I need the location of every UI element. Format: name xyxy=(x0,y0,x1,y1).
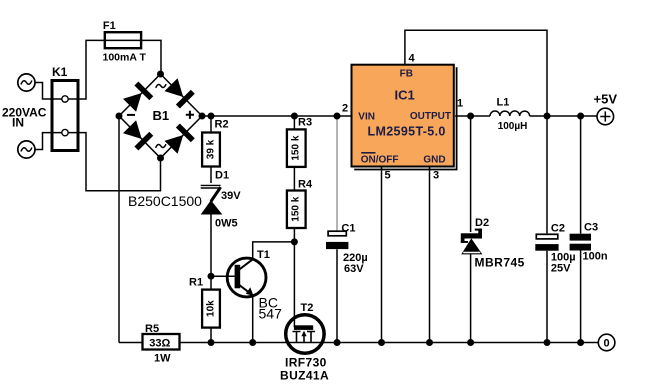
node bridge right xyxy=(199,113,206,120)
svg-text:220VAC: 220VAC xyxy=(2,106,47,120)
wire K1 bottom to bridge bottom xyxy=(69,133,161,191)
svg-text:3: 3 xyxy=(433,170,439,182)
wire bottom rail xyxy=(119,342,598,344)
svg-text:63V: 63V xyxy=(344,263,364,275)
zener D1 xyxy=(201,185,223,214)
bridge diode top-left xyxy=(122,82,153,113)
node C1 top xyxy=(334,113,341,120)
wire bridge minus down to bottom rail xyxy=(118,116,120,343)
svg-text:C3: C3 xyxy=(584,222,598,234)
capacitor C2 xyxy=(546,116,548,233)
svg-text:IN: IN xyxy=(12,116,24,130)
svg-text:T1: T1 xyxy=(257,249,270,261)
capacitor C3 xyxy=(580,116,582,234)
wire AC top to K1 xyxy=(35,83,65,100)
svg-text:C2: C2 xyxy=(551,223,565,235)
svg-text:1W: 1W xyxy=(154,353,171,365)
svg-text:D2: D2 xyxy=(475,217,489,229)
terminal 0V xyxy=(598,334,615,351)
svg-text:100mA T: 100mA T xyxy=(103,52,147,64)
node C3 bottom xyxy=(577,339,584,346)
svg-text:OUTPUT: OUTPUT xyxy=(410,111,451,122)
AC source top xyxy=(18,74,35,91)
node pin 5 bottom xyxy=(378,339,385,346)
svg-text:LM2595T-5.0: LM2595T-5.0 xyxy=(368,125,446,139)
node switch/D2 xyxy=(467,113,474,120)
transistor T1 xyxy=(227,258,266,297)
node collector/gate junction xyxy=(291,238,298,245)
wire R2 to D1 xyxy=(210,167,212,184)
bridge diode bottom-right xyxy=(164,124,195,155)
svg-text:T2: T2 xyxy=(301,302,314,314)
resistor R4 xyxy=(287,191,306,229)
bridge rectifier B1 xyxy=(119,74,202,158)
resistor R3 xyxy=(293,116,295,129)
svg-text:25V: 25V xyxy=(551,263,571,275)
node FB/C2 xyxy=(544,113,551,120)
node R2 tap xyxy=(208,113,215,120)
svg-text:150 k: 150 k xyxy=(291,196,302,221)
node C2 bottom xyxy=(544,339,551,346)
AC source bottom xyxy=(18,141,35,158)
node bridge bottom xyxy=(157,155,164,162)
node R3 tap xyxy=(291,113,298,120)
svg-text:FB: FB xyxy=(400,69,413,80)
wire output rail xyxy=(455,115,490,117)
svg-text:2: 2 xyxy=(342,103,348,115)
wire T1 base xyxy=(211,275,235,277)
bridge diode top-right xyxy=(164,77,195,108)
pin 5 wire xyxy=(381,167,383,343)
svg-text:R1: R1 xyxy=(189,277,203,289)
bridge diode bottom-left xyxy=(122,119,153,150)
node pin 3 bottom xyxy=(426,339,433,346)
node T1 emitter bottom xyxy=(249,339,256,346)
svg-text:ON/OFF: ON/OFF xyxy=(361,154,399,165)
svg-text:+5V: +5V xyxy=(594,92,618,107)
node bridge left xyxy=(116,113,123,120)
capacitor C1 xyxy=(336,116,338,231)
svg-text:10k: 10k xyxy=(206,300,217,317)
pin 4 wire FB xyxy=(405,30,547,116)
pin 3 wire xyxy=(429,167,431,343)
IC1 regulator xyxy=(352,65,457,170)
svg-text:L1: L1 xyxy=(497,97,510,109)
svg-text:1: 1 xyxy=(457,98,463,110)
svg-text:4: 4 xyxy=(409,53,416,65)
node R1 bottom xyxy=(208,339,215,346)
svg-text:R3: R3 xyxy=(298,117,312,129)
wire K1 top to fuse xyxy=(69,40,161,99)
node bridge top xyxy=(157,71,164,78)
svg-text:R5: R5 xyxy=(145,323,159,335)
wire AC bottom to K1 xyxy=(35,133,65,150)
MOSFET T2 xyxy=(286,315,324,353)
svg-text:39 k: 39 k xyxy=(206,139,217,159)
terminal +5V xyxy=(597,108,614,125)
wire R4 to T2 gate xyxy=(293,228,295,327)
svg-text:IRF730: IRF730 xyxy=(285,356,327,370)
wire R3 to R4 xyxy=(293,167,295,191)
svg-text:BUZ41A: BUZ41A xyxy=(280,369,329,383)
node C1 bottom xyxy=(334,339,341,346)
svg-text:F1: F1 xyxy=(103,20,116,32)
wire main rail bridge to IC xyxy=(202,115,352,117)
wire D1 to R1 xyxy=(210,215,212,290)
wire L1 to +5V xyxy=(530,115,597,117)
svg-text:VIN: VIN xyxy=(358,111,375,122)
svg-text:0W5: 0W5 xyxy=(215,218,238,230)
svg-text:33Ω: 33Ω xyxy=(149,337,170,349)
resistor R5 xyxy=(143,334,180,350)
wire R1 to rail xyxy=(210,328,212,343)
svg-text:GND: GND xyxy=(423,154,445,165)
svg-text:R2: R2 xyxy=(215,119,229,131)
svg-text:C1: C1 xyxy=(341,223,355,235)
node D2 bottom xyxy=(467,339,474,346)
svg-text:100µH: 100µH xyxy=(498,121,528,132)
svg-text:B1: B1 xyxy=(153,108,170,123)
svg-text:K1: K1 xyxy=(52,65,68,79)
fuse F1 xyxy=(105,32,141,48)
svg-text:547: 547 xyxy=(259,306,283,322)
svg-text:150 k: 150 k xyxy=(291,135,302,160)
node D1/R1/T1 base xyxy=(208,273,215,280)
svg-text:100n: 100n xyxy=(583,251,608,263)
svg-text:D1: D1 xyxy=(215,170,229,182)
svg-text:R4: R4 xyxy=(298,179,313,191)
svg-text:5: 5 xyxy=(385,170,391,182)
diode D2 xyxy=(470,116,472,232)
inductor L1 xyxy=(490,111,530,116)
resistor R1 xyxy=(202,290,220,328)
svg-text:MBR745: MBR745 xyxy=(475,256,525,270)
wire T1 collector xyxy=(253,242,295,259)
connector K1 xyxy=(52,81,78,151)
svg-text:39V: 39V xyxy=(221,190,241,202)
node C3 top xyxy=(577,113,584,120)
resistor R2 xyxy=(210,116,212,133)
svg-text:B250C1500: B250C1500 xyxy=(128,193,202,209)
wire T1 emitter xyxy=(252,296,254,343)
svg-text:0: 0 xyxy=(604,338,610,350)
svg-text:IC1: IC1 xyxy=(395,88,415,103)
